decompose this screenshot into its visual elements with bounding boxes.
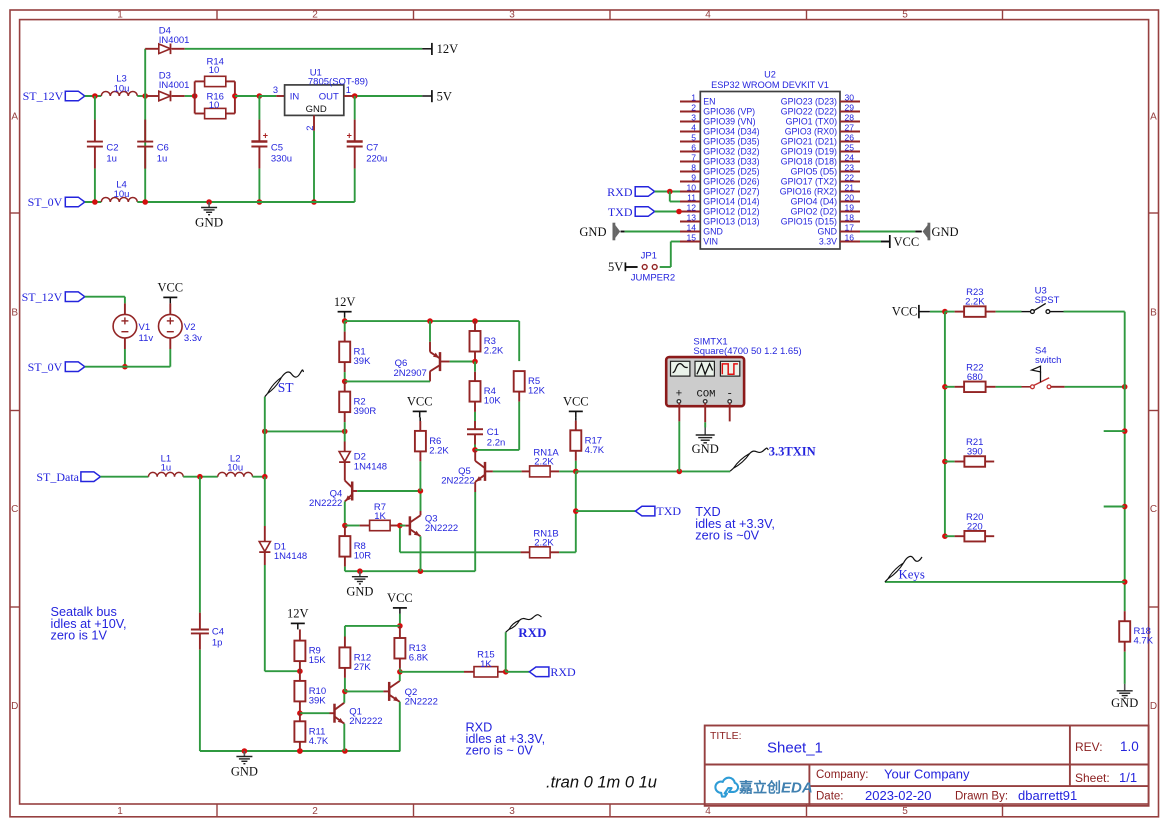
- svg-text:VCC: VCC: [407, 395, 433, 409]
- svg-text:2023-02-20: 2023-02-20: [865, 788, 932, 803]
- svg-text:C: C: [1150, 504, 1157, 515]
- svg-text:VCC: VCC: [563, 395, 589, 409]
- svg-text:10: 10: [686, 183, 696, 193]
- svg-text:GND: GND: [231, 765, 258, 779]
- svg-text:ESP32 WROOM DEVKIT V1: ESP32 WROOM DEVKIT V1: [711, 80, 829, 90]
- svg-text:12V: 12V: [287, 607, 309, 621]
- svg-text:1: 1: [346, 85, 351, 95]
- svg-text:14: 14: [686, 223, 696, 233]
- svg-text:IN4001: IN4001: [159, 35, 190, 46]
- svg-text:GPIO12 (D12): GPIO12 (D12): [703, 207, 759, 217]
- svg-text:JP1: JP1: [641, 250, 657, 261]
- svg-text:5: 5: [902, 806, 908, 817]
- svg-text:B: B: [11, 308, 18, 319]
- svg-text:GPIO23 (D23): GPIO23 (D23): [781, 97, 837, 107]
- svg-text:22: 22: [845, 173, 855, 183]
- svg-text:1u: 1u: [161, 463, 172, 474]
- svg-text:26: 26: [845, 133, 855, 143]
- svg-text:GPIO4 (D4): GPIO4 (D4): [791, 197, 838, 207]
- svg-text:GPIO14 (D14): GPIO14 (D14): [703, 197, 759, 207]
- svg-text:1p: 1p: [212, 637, 223, 648]
- svg-text:RXD: RXD: [550, 665, 576, 679]
- svg-text:39K: 39K: [354, 356, 372, 367]
- svg-text:1.0: 1.0: [1120, 739, 1139, 754]
- svg-text:GPIO15 (D15): GPIO15 (D15): [781, 217, 837, 227]
- svg-text:GPIO39 (VN): GPIO39 (VN): [703, 117, 755, 127]
- svg-text:1/1: 1/1: [1119, 770, 1137, 785]
- svg-text:GPIO21 (D21): GPIO21 (D21): [781, 137, 837, 147]
- svg-text:1N4148: 1N4148: [274, 551, 307, 562]
- svg-text:21: 21: [845, 183, 855, 193]
- svg-text:ST_Data: ST_Data: [36, 470, 79, 484]
- svg-text:10R: 10R: [354, 551, 372, 562]
- svg-text:EN: EN: [703, 97, 715, 107]
- svg-text:GPIO19 (D19): GPIO19 (D19): [781, 147, 837, 157]
- svg-text:13: 13: [686, 213, 696, 223]
- svg-text:6: 6: [691, 143, 696, 153]
- svg-text:ST_12V: ST_12V: [22, 290, 63, 304]
- svg-text:VCC: VCC: [894, 235, 920, 249]
- svg-text:2: 2: [312, 806, 318, 817]
- svg-text:C6: C6: [157, 142, 169, 153]
- svg-text:1u: 1u: [106, 153, 117, 164]
- svg-text:23: 23: [845, 163, 855, 173]
- svg-text:GPIO26 (D26): GPIO26 (D26): [703, 177, 759, 187]
- svg-text:2N2222: 2N2222: [425, 523, 458, 534]
- svg-text:GND: GND: [195, 215, 223, 230]
- svg-text:7: 7: [691, 153, 696, 163]
- svg-text:+: +: [676, 389, 683, 401]
- svg-text:GND: GND: [692, 442, 719, 456]
- svg-text:dbarrett91: dbarrett91: [1018, 788, 1077, 803]
- svg-text:B: B: [1150, 308, 1157, 319]
- svg-text:3: 3: [273, 85, 278, 95]
- svg-text:2.2K: 2.2K: [429, 445, 449, 456]
- svg-text:C4: C4: [212, 627, 224, 638]
- svg-text:GPIO18 (D18): GPIO18 (D18): [781, 157, 837, 167]
- svg-text:1: 1: [117, 9, 123, 20]
- svg-text:10u: 10u: [114, 83, 130, 94]
- svg-text:3: 3: [691, 113, 696, 123]
- svg-text:4: 4: [705, 806, 711, 817]
- svg-text:24: 24: [845, 153, 855, 163]
- svg-text:4.7K: 4.7K: [309, 736, 329, 747]
- svg-text:2: 2: [691, 103, 696, 113]
- svg-text:3: 3: [509, 806, 515, 817]
- svg-text:+: +: [347, 131, 352, 141]
- svg-text:30: 30: [845, 93, 855, 103]
- svg-text:12V: 12V: [334, 295, 356, 309]
- svg-text:2.2K: 2.2K: [534, 457, 554, 468]
- svg-text:ST_0V: ST_0V: [28, 195, 63, 209]
- svg-text:GND: GND: [1111, 696, 1138, 710]
- svg-text:27: 27: [845, 123, 855, 133]
- svg-text:C7: C7: [366, 142, 378, 153]
- svg-text:12: 12: [686, 203, 696, 213]
- svg-text:2.2K: 2.2K: [965, 297, 985, 308]
- svg-text:3: 3: [509, 9, 515, 20]
- svg-text:Sheet_1: Sheet_1: [767, 740, 823, 757]
- svg-text:GND: GND: [817, 227, 837, 237]
- svg-text:2: 2: [305, 126, 315, 131]
- svg-text:28: 28: [845, 113, 855, 123]
- svg-text:10: 10: [209, 65, 220, 76]
- svg-text:GPIO1 (TX0): GPIO1 (TX0): [786, 117, 837, 127]
- svg-text:COM: COM: [697, 389, 716, 401]
- svg-text:27K: 27K: [354, 662, 372, 673]
- svg-text:220: 220: [967, 521, 983, 532]
- svg-text:19: 19: [845, 203, 855, 213]
- svg-text:15K: 15K: [309, 655, 327, 666]
- svg-text:20: 20: [845, 193, 855, 203]
- svg-text:GPIO2 (D2): GPIO2 (D2): [791, 207, 838, 217]
- svg-text:-: -: [726, 389, 733, 401]
- svg-text:2N2222: 2N2222: [441, 476, 474, 487]
- svg-text:3.3v: 3.3v: [184, 333, 202, 344]
- svg-text:SPST: SPST: [1035, 295, 1060, 306]
- svg-text:2N2907: 2N2907: [394, 368, 427, 379]
- svg-text:GPIO32 (D32): GPIO32 (D32): [703, 147, 759, 157]
- svg-text:11: 11: [687, 193, 696, 203]
- svg-text:GND: GND: [579, 225, 606, 239]
- svg-text:zero is ~0V: zero is ~0V: [695, 529, 759, 543]
- svg-text:Company:: Company:: [816, 769, 868, 781]
- svg-text:Your Company: Your Company: [884, 767, 970, 782]
- svg-text:1K: 1K: [480, 659, 492, 670]
- svg-text:4.7K: 4.7K: [585, 445, 605, 456]
- svg-text:Drawn By:: Drawn By:: [955, 791, 1008, 803]
- svg-text:10: 10: [209, 100, 220, 111]
- svg-text:C5: C5: [271, 142, 283, 153]
- svg-text:GND: GND: [306, 104, 327, 115]
- svg-text:2N2222: 2N2222: [309, 498, 342, 509]
- svg-text:5V: 5V: [437, 89, 452, 103]
- svg-text:GND: GND: [346, 585, 373, 599]
- svg-text:10K: 10K: [484, 396, 502, 407]
- svg-text:ST: ST: [278, 380, 295, 395]
- svg-text:3.3V: 3.3V: [819, 237, 837, 247]
- svg-text:嘉立创: 嘉立创: [738, 780, 781, 796]
- svg-text:C: C: [11, 504, 18, 515]
- svg-text:6.8K: 6.8K: [409, 653, 429, 664]
- svg-text:1N4148: 1N4148: [354, 462, 387, 473]
- svg-text:GPIO22 (D22): GPIO22 (D22): [781, 107, 837, 117]
- svg-text:15: 15: [686, 233, 696, 243]
- svg-text:V2: V2: [184, 322, 196, 333]
- svg-text:GPIO34 (D34): GPIO34 (D34): [703, 127, 759, 137]
- svg-text:TITLE:: TITLE:: [710, 730, 742, 742]
- svg-text:390R: 390R: [354, 406, 377, 417]
- svg-text:EDA: EDA: [781, 780, 813, 797]
- svg-text:zero is 1V: zero is 1V: [51, 628, 108, 642]
- svg-text:17: 17: [845, 223, 855, 233]
- svg-text:220u: 220u: [366, 153, 387, 164]
- svg-text:ST_0V: ST_0V: [28, 360, 63, 374]
- svg-text:10u: 10u: [227, 463, 243, 474]
- svg-text:5: 5: [691, 133, 696, 143]
- svg-text:D: D: [1150, 701, 1157, 712]
- svg-text:2.2K: 2.2K: [534, 538, 554, 549]
- svg-text:2.2K: 2.2K: [484, 346, 504, 357]
- svg-text:OUT: OUT: [319, 91, 339, 102]
- svg-text:12V: 12V: [437, 42, 459, 56]
- svg-text:A: A: [1150, 112, 1157, 123]
- svg-text:JUMPER2: JUMPER2: [631, 273, 675, 284]
- svg-text:8: 8: [691, 163, 696, 173]
- svg-text:680: 680: [967, 372, 983, 383]
- svg-text:2: 2: [312, 9, 318, 20]
- svg-text:VIN: VIN: [703, 237, 718, 247]
- svg-text:GPIO27 (D27): GPIO27 (D27): [703, 187, 759, 197]
- svg-text:9: 9: [691, 173, 696, 183]
- svg-text:390: 390: [967, 447, 983, 458]
- svg-text:GPIO35 (D35): GPIO35 (D35): [703, 137, 759, 147]
- svg-text:5V: 5V: [608, 260, 623, 274]
- svg-text:Date:: Date:: [816, 791, 844, 803]
- svg-text:Square(4700 50 1.2 1.65): Square(4700 50 1.2 1.65): [693, 346, 801, 357]
- svg-text:25: 25: [845, 143, 855, 153]
- svg-text:GPIO3 (RX0): GPIO3 (RX0): [785, 127, 837, 137]
- svg-text:zero is ~ 0V: zero is ~ 0V: [466, 744, 534, 758]
- svg-text:4.7K: 4.7K: [1134, 636, 1154, 647]
- svg-text:GND: GND: [703, 227, 723, 237]
- svg-text:VCC: VCC: [387, 591, 413, 605]
- svg-text:4: 4: [691, 123, 696, 133]
- svg-text:A: A: [11, 112, 18, 123]
- svg-text:1: 1: [117, 806, 123, 817]
- svg-text:.tran 0 1m 0 1u: .tran 0 1m 0 1u: [546, 774, 657, 792]
- svg-text:4: 4: [705, 9, 711, 20]
- svg-text:REV:: REV:: [1075, 740, 1103, 754]
- svg-text:2N2222: 2N2222: [349, 716, 382, 727]
- svg-text:C2: C2: [106, 142, 118, 153]
- svg-text:ST_12V: ST_12V: [23, 89, 64, 103]
- svg-text:IN4001: IN4001: [159, 80, 190, 91]
- svg-text:5: 5: [902, 9, 908, 20]
- svg-text:3.3TXIN: 3.3TXIN: [769, 444, 816, 458]
- svg-text:GPIO36 (VP): GPIO36 (VP): [703, 107, 755, 117]
- svg-text:VCC: VCC: [892, 305, 918, 319]
- svg-text:11v: 11v: [139, 333, 154, 344]
- svg-text:VCC: VCC: [157, 281, 183, 295]
- svg-text:12K: 12K: [528, 386, 546, 397]
- svg-text:V1: V1: [139, 322, 151, 333]
- svg-text:GPIO17 (TX2): GPIO17 (TX2): [781, 177, 837, 187]
- svg-text:GPIO25 (D25): GPIO25 (D25): [703, 167, 759, 177]
- svg-text:switch: switch: [1035, 355, 1061, 366]
- svg-text:1: 1: [691, 93, 696, 103]
- svg-text:D: D: [11, 701, 18, 712]
- svg-text:GPIO13 (D13): GPIO13 (D13): [703, 217, 759, 227]
- svg-text:16: 16: [845, 233, 855, 243]
- svg-text:+: +: [263, 131, 268, 141]
- svg-text:29: 29: [845, 103, 855, 113]
- svg-text:GND: GND: [932, 225, 959, 239]
- svg-text:330u: 330u: [271, 153, 292, 164]
- svg-text:GPIO5 (D5): GPIO5 (D5): [791, 167, 838, 177]
- svg-text:39K: 39K: [309, 695, 327, 706]
- svg-text:Keys: Keys: [899, 568, 925, 582]
- svg-text:Sheet:: Sheet:: [1075, 771, 1110, 785]
- svg-text:TXD: TXD: [656, 504, 681, 518]
- svg-text:7805(SOT-89): 7805(SOT-89): [308, 77, 368, 88]
- svg-text:RXD: RXD: [607, 185, 633, 199]
- svg-text:1u: 1u: [157, 153, 168, 164]
- svg-text:GPIO33 (D33): GPIO33 (D33): [703, 157, 759, 167]
- svg-text:IN: IN: [290, 91, 300, 102]
- svg-text:18: 18: [845, 213, 855, 223]
- svg-text:2.2n: 2.2n: [487, 437, 506, 448]
- svg-text:TXD: TXD: [608, 205, 633, 219]
- svg-text:2N2222: 2N2222: [405, 697, 438, 708]
- svg-text:GPIO16 (RX2): GPIO16 (RX2): [780, 187, 837, 197]
- svg-text:U2: U2: [764, 70, 776, 80]
- svg-text:RXD: RXD: [518, 625, 546, 640]
- svg-text:1K: 1K: [374, 511, 386, 522]
- svg-text:10u: 10u: [114, 189, 130, 200]
